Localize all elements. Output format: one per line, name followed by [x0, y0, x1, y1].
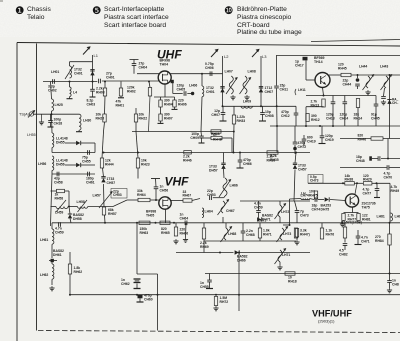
wire CH83 dn [389, 283, 391, 289]
wire CH48 mid [372, 158, 378, 160]
wire L2 stem [222, 56, 224, 106]
capacitor CH62 plates bold [134, 278, 141, 280]
svg-text:CH59: CH59 [55, 230, 64, 234]
svg-text:CH01: CH01 [106, 75, 115, 79]
resistor RH02 120k [148, 88, 151, 97]
wire RH46 right [383, 138, 400, 140]
resistor RH64 33k [138, 198, 150, 201]
wire x232 down [231, 138, 233, 153]
wire RH03 to RH25 [104, 96, 107, 114]
label resistor RH36 [267, 155, 276, 163]
ground bar below RH06 [172, 108, 178, 110]
diode DH56 LL4148 [76, 163, 81, 167]
wire RH23 down [137, 168, 139, 179]
svg-text:DH57: DH57 [209, 168, 218, 172]
wire bus y222 main [105, 222, 310, 224]
wire RH57 down [104, 215, 107, 223]
capacitor CH08 ground bar [259, 120, 266, 122]
capacitor CH19 120p [320, 136, 325, 138]
svg-text:LH68: LH68 [228, 232, 236, 236]
label capacitor CH55c [200, 281, 209, 289]
ground CH83 [387, 288, 392, 293]
label inductor LH81 [377, 215, 385, 219]
svg-text:CH60: CH60 [144, 297, 153, 301]
label inductor LH59 [55, 211, 63, 215]
wire L1 top bar [70, 61, 93, 63]
wire CH60 dn [139, 298, 141, 301]
resistor RH12 390 [306, 114, 309, 122]
wire L1 stem [92, 55, 94, 82]
wire RH06 bottom [174, 107, 176, 109]
capacitor CH61 180p [88, 172, 90, 177]
label capacitor CH58 [54, 177, 63, 185]
wire base to TH14 [306, 79, 315, 81]
wire y201 run [240, 200, 310, 202]
label capacitor CH01c [106, 72, 115, 80]
svg-text:DH61: DH61 [53, 253, 62, 257]
label resistor RH48 [213, 134, 222, 142]
wire source down [164, 84, 166, 97]
svg-text:CH77: CH77 [363, 191, 372, 195]
inductor LH07 with tuning arrow [226, 76, 238, 94]
svg-text:Platine du tube image: Platine du tube image [237, 29, 302, 36]
wire LH66 bottom [224, 196, 225, 198]
label resistor RH23 [141, 159, 150, 167]
svg-text:CH57: CH57 [107, 181, 116, 185]
wire CH45 up [375, 96, 377, 105]
junction base row right [376, 182, 378, 184]
wire RH44 up [102, 132, 104, 159]
junction RH66 top [173, 222, 175, 224]
inductor LH08 with tuning arrow [240, 76, 252, 94]
board border left inner [36, 44, 38, 331]
inductor LH58 tuning arrow [78, 200, 88, 212]
junction RH84 bus [389, 273, 391, 275]
label capacitor CH59c [254, 202, 263, 210]
wire RH83 up [344, 223, 346, 227]
svg-text:CH73: CH73 [310, 179, 319, 183]
label resistor RH47 [300, 229, 310, 237]
svg-text:TH75: TH75 [362, 205, 370, 209]
resistor RH83 [343, 227, 346, 238]
label transistor TH04 [160, 59, 171, 67]
svg-text:CH53: CH53 [113, 193, 122, 197]
capacitor CH04 27p [132, 64, 137, 66]
ground LH71b [277, 265, 282, 270]
svg-text:CH09: CH09 [190, 136, 199, 140]
trimmer CH67 with tuning arrow [218, 199, 230, 215]
label inductor LH07 [225, 70, 233, 74]
svg-text:Scart interface board: Scart interface board [104, 22, 166, 29]
label resistor RH25 [96, 113, 105, 121]
svg-text:CH62: CH62 [121, 282, 130, 286]
wire CH56 stub [155, 179, 158, 187]
label resistor RH49 [391, 185, 400, 193]
svg-text:LH71: LH71 [282, 253, 290, 257]
ground LH44 [365, 90, 370, 95]
wire CH13 down [332, 104, 334, 126]
capacitor CH72 470p [293, 142, 298, 144]
capacitor CH59c 4.7n [256, 211, 261, 213]
wire CH08 down [262, 115, 264, 121]
label capacitor CH45 [371, 113, 380, 121]
wire CH67 down [222, 217, 224, 223]
wire CH05 right lead [187, 93, 191, 95]
resistor RH44 12k [100, 158, 103, 168]
wire RH76 up [321, 223, 323, 228]
svg-text:RH45: RH45 [338, 66, 347, 70]
diode DH57b 1T33 [221, 163, 225, 169]
svg-text:LH81: LH81 [377, 215, 385, 219]
wire y206 seg2 [68, 206, 78, 208]
label capacitor CH19 [325, 134, 334, 142]
wire RH33 up [233, 106, 235, 115]
wire RH23 up [136, 132, 138, 159]
ground LH43 [381, 100, 386, 105]
svg-text:DH75: DH75 [321, 207, 330, 211]
ground RH47 [294, 240, 299, 245]
label diode DH61 [53, 249, 64, 257]
label resistor RH04 [164, 99, 173, 107]
wire emitter split [344, 212, 359, 214]
svg-text:CH57: CH57 [298, 167, 307, 171]
junction x388 [387, 158, 389, 160]
wire CH56 down [155, 189, 157, 200]
junction x137 [136, 222, 138, 224]
capacitor CH17 blob [303, 57, 308, 61]
label capacitor CH83 [392, 279, 399, 287]
svg-text:RH06: RH06 [178, 102, 187, 106]
wire CH82 dn [344, 246, 346, 251]
svg-text:CH18: CH18 [54, 121, 63, 125]
capacitor CH44 22p [355, 84, 360, 86]
svg-text:RH81: RH81 [362, 217, 371, 221]
label capacitor CH62 [121, 278, 130, 286]
wire CH49 down [303, 141, 305, 146]
capacitor CH64 1n [185, 221, 187, 226]
inductor LH66 with tuning arrow [219, 178, 231, 197]
svg-text:CH61: CH61 [86, 180, 95, 184]
svg-text:CH03: CH03 [87, 102, 96, 106]
capacitor CH62 1n [135, 279, 140, 281]
wire CH17 base drop [305, 61, 307, 81]
varicap diode CH57c 1T33 [293, 163, 297, 169]
svg-text:RH46: RH46 [183, 158, 192, 162]
label capacitor CH73b [300, 210, 309, 218]
svg-text:VHF: VHF [165, 175, 190, 189]
label inductor LH44 [359, 65, 367, 69]
inductor LH73 with tuning arrow [277, 226, 289, 242]
label capacitor CH18 [54, 118, 63, 126]
wire RH62 top [69, 252, 71, 264]
wire left col mid [51, 174, 53, 226]
wire main bottom bus [69, 294, 400, 296]
label resistor RH45 [338, 63, 347, 71]
wire CH55c up [209, 274, 211, 281]
resistor RH76 1.1k [320, 228, 323, 239]
capacitor CH44 blob [356, 78, 360, 82]
label capacitor CH53 boxed [111, 189, 127, 199]
label capacitor CH61 [86, 177, 95, 185]
wire CH64 down [185, 223, 188, 238]
wire y197 to coil [213, 197, 224, 199]
junction bottom bus x137 [136, 294, 138, 296]
wire RH04 top [160, 97, 162, 100]
label capacitor CH73 boxed [308, 175, 323, 184]
wire x239 drop [238, 253, 240, 312]
wire CH55c down [209, 282, 211, 288]
svg-text:❺: ❺ [92, 5, 102, 17]
capacitor CH59a 4.7n [59, 222, 61, 227]
svg-text:RH22: RH22 [139, 116, 148, 120]
inductor L4 [70, 87, 78, 97]
label transistor TH05 [146, 210, 156, 218]
wire LH43 down [384, 88, 385, 96]
capacitor CH77 4.7p [375, 189, 380, 191]
inductor LH61 [40, 229, 54, 244]
label capacitor CH49 [307, 136, 316, 144]
feedthrough blob CH48 [369, 156, 372, 160]
junction bus CH13 [332, 125, 334, 127]
wire emitter bus y95 [306, 95, 376, 97]
capacitor CH66 ground bar [237, 167, 244, 169]
label diode DH75 [321, 204, 332, 212]
label resistor RH33 [237, 115, 246, 123]
wire base wire left [309, 199, 314, 200]
wire RH06 top [174, 97, 176, 100]
wire y225 stub [283, 224, 290, 226]
svg-text:Piastra cinescopio: Piastra cinescopio [237, 14, 292, 21]
label diode DH57b [209, 165, 218, 173]
resistor RH25 10k [103, 114, 106, 122]
svg-text:RH67: RH67 [183, 194, 192, 198]
svg-text:L1: L1 [94, 53, 99, 58]
svg-text:RH33: RH33 [237, 119, 246, 123]
capacitor CH19 ground bar [319, 143, 326, 145]
label inductor LH25 [55, 103, 63, 107]
wire LH83 left [290, 198, 302, 201]
wire y206 seg1 [51, 206, 57, 208]
svg-text:LH57: LH57 [93, 194, 101, 198]
wire RH84 up [389, 223, 391, 234]
svg-text:TH04: TH04 [160, 62, 169, 66]
inductor LH30 [79, 114, 81, 130]
svg-text:LH07: LH07 [225, 70, 233, 74]
junction CH56 gate [155, 199, 157, 201]
label capacitor CH07d 12p [211, 109, 220, 117]
wire LH56 bottom [51, 170, 53, 174]
wire CH57 to RH57 [103, 184, 106, 207]
wire CH12 down [295, 115, 297, 126]
label capacitor CH05 [177, 84, 186, 92]
label diode CH57 [107, 177, 116, 185]
svg-text:RH07: RH07 [164, 116, 173, 120]
wire CH07d up [222, 106, 224, 112]
capacitor CH48 18p [378, 156, 380, 161]
wire CH83 up [389, 274, 391, 281]
capacitor CH53c 22p [210, 195, 212, 200]
junction CH11 bus106 [276, 105, 278, 107]
svg-text:LH55: LH55 [27, 133, 36, 137]
wire RH33 down [233, 124, 236, 153]
svg-text:CH02: CH02 [48, 88, 57, 92]
wire LH72 up [279, 201, 281, 205]
transistor TH05 BF998 [159, 197, 171, 209]
wire DH66 right [240, 252, 311, 254]
resistor RH01 47k [119, 88, 122, 96]
resistor RH36 2.2k [267, 151, 278, 154]
junction x289 [289, 224, 291, 226]
junction LH25 input node [51, 113, 53, 115]
label inductor LH7x [301, 192, 307, 196]
svg-text:CH13: CH13 [326, 116, 335, 120]
resistor RH71 1.8k [258, 228, 261, 238]
svg-text:CH07: CH07 [211, 113, 220, 117]
wire DH57b down [223, 169, 226, 178]
ground bar below L4 [67, 98, 73, 100]
capacitor CH02 3.3p [53, 79, 55, 84]
svg-text:❿: ❿ [224, 5, 234, 17]
svg-text:CH05: CH05 [177, 87, 186, 91]
label LH71 top [258, 219, 266, 223]
wire LH06 top [201, 74, 203, 86]
label capacitor CH56 [160, 185, 169, 193]
wire CH57c down [294, 170, 295, 202]
junction CH11 bus126 [276, 125, 278, 127]
junction emitter [323, 95, 325, 97]
wire TH05 source down [165, 209, 167, 223]
wire CH12 up [295, 106, 297, 113]
transistor TH04 BF998 dual-gate FET [158, 71, 171, 84]
wire LH25 bottom lead [51, 111, 53, 114]
svg-text:LH73: LH73 [283, 232, 291, 236]
wire DH56 right [81, 164, 95, 166]
label capacitor CH64 [180, 213, 189, 221]
svg-text:CH08: CH08 [265, 114, 274, 118]
label inductor LH01 [51, 70, 59, 74]
label capacitor CH13 [326, 113, 335, 121]
svg-text:(2903)(1): (2903)(1) [318, 319, 335, 324]
resistor RH38c [211, 136, 222, 139]
label resistor RH18 [288, 276, 297, 284]
svg-text:CH70: CH70 [384, 175, 393, 179]
label capacitor CH60 [144, 294, 153, 302]
label resistor RH44 [105, 159, 114, 167]
svg-text:RH72: RH72 [220, 300, 229, 304]
label resistor RH77 [348, 214, 357, 222]
wire DH55 left [65, 142, 76, 144]
svg-text:CH19: CH19 [325, 138, 334, 142]
svg-text:LH8: LH8 [395, 215, 400, 219]
wire TH14 emitter down [323, 88, 324, 96]
wire CH04 down [133, 66, 135, 74]
wire TH14 collector up [327, 74, 329, 76]
junction x239 diode bus [238, 252, 240, 254]
wire rail y74 right [170, 73, 223, 75]
resistor RH72 1.5M [214, 297, 217, 306]
ground bar below CH03 [90, 96, 96, 98]
capacitor CH71 4.7n [356, 236, 361, 238]
wire DH66 bus left [176, 252, 234, 254]
wire RH07 bottom [160, 121, 162, 123]
resistor RH18 10 [285, 272, 295, 275]
wire RH22 stub [135, 108, 137, 114]
resistor RH46 820 [371, 137, 383, 140]
capacitor CH13 120p [331, 102, 336, 104]
junction CH19 bus [319, 125, 321, 127]
label resistor RH46b [183, 155, 192, 163]
wire y274 link [137, 273, 158, 275]
aerial input plug symbol [28, 110, 35, 118]
wire CH44 down [357, 86, 359, 89]
wire x277 drop [276, 126, 278, 153]
wire CH68 down [242, 233, 244, 241]
wire row bottom bus [204, 240, 296, 242]
board border bottom dashed [38, 331, 400, 333]
wire CH57c up [295, 153, 296, 164]
wire RH66 up [175, 223, 177, 227]
label capacitor CH53c [207, 189, 216, 197]
wire bias row [154, 96, 175, 98]
label resistor RH63 [140, 227, 149, 235]
wire y206 seg3 [88, 206, 113, 208]
capacitor CH71 ground bar [355, 244, 362, 246]
capacitor CH18 100p [48, 121, 53, 123]
capacitor CH74 18p [315, 197, 317, 202]
capacitor CH45 91p [374, 104, 379, 106]
wire CH09 down [201, 138, 203, 143]
label capacitor CH71 [361, 236, 370, 244]
inductor LH55 [52, 133, 54, 147]
label varicap CH01b [206, 86, 215, 94]
inductor LH59 tuning arrow [56, 200, 66, 212]
junction CH66 bus [239, 152, 241, 154]
wire CH19 down [321, 138, 323, 143]
wire CH77 down [376, 191, 378, 198]
diode DH58 BAS82 [68, 214, 72, 218]
svg-text:RH03: RH03 [96, 90, 105, 94]
wire CH05 left lead [173, 93, 183, 95]
junction RH45 CH44 [357, 74, 359, 76]
inductor LH43 with tuning arrow [381, 74, 393, 90]
inductor LH82 [391, 213, 393, 221]
svg-text:RH23: RH23 [141, 162, 150, 166]
resistor RH63 150k [139, 221, 150, 224]
wire x157 drop [157, 274, 159, 331]
wire RH62 bottom to bus [69, 274, 71, 295]
wire CH04 top bar [130, 59, 139, 61]
svg-text:CH8: CH8 [392, 282, 399, 286]
inductor LH59 [56, 207, 68, 209]
wire CH77 up [376, 183, 378, 188]
junction RH33 RH48 [233, 131, 235, 133]
label capacitor CH44 [343, 79, 352, 87]
label capacitor CH06 [205, 62, 214, 70]
junction bus y222 x105 [104, 222, 106, 224]
ground CH64 [183, 238, 188, 243]
wire CH72 up [294, 126, 296, 142]
svg-text:RH84: RH84 [375, 239, 384, 243]
capacitor CH68 2.2n [241, 231, 246, 233]
svg-text:LH64: LH64 [205, 210, 213, 214]
svg-text:DH55: DH55 [56, 140, 65, 144]
svg-text:CH07: CH07 [265, 90, 274, 94]
diode DH55 LL4148 [76, 141, 81, 145]
wire y183 base bus [308, 182, 345, 184]
ground bar CH09 [199, 142, 205, 144]
inductor LH25 [52, 99, 54, 111]
wire x389 right rail drop [389, 75, 391, 139]
